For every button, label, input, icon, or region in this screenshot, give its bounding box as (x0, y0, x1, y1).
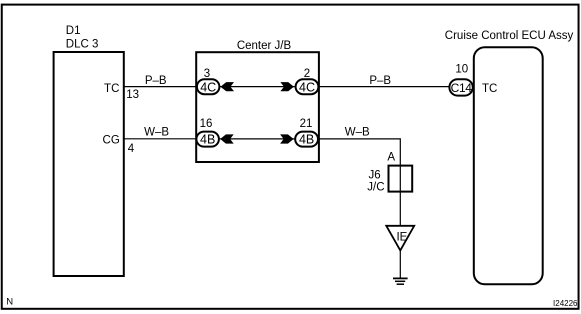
svg-text:13: 13 (126, 89, 139, 101)
junction connector J6 J/C (box) (389, 166, 413, 192)
Center J/B box (196, 52, 319, 162)
wire Center J/B to C14 (P-B) (318, 86, 451, 88)
svg-text:N: N (6, 297, 13, 308)
svg-text:4: 4 (128, 143, 135, 155)
svg-text:Cruise Control ECU Assy: Cruise Control ECU Assy (445, 30, 574, 42)
svg-text:J6: J6 (369, 170, 381, 182)
arrowhead right row 2 (280, 134, 294, 143)
svg-text:10: 10 (455, 63, 468, 75)
terminal 4C left (oval) (197, 79, 220, 94)
svg-text:Center J/B: Center J/B (237, 40, 292, 52)
svg-text:4B: 4B (200, 133, 215, 147)
ground triangle IE (386, 226, 414, 251)
svg-text:DLC 3: DLC 3 (66, 39, 99, 51)
svg-text:4C: 4C (299, 80, 315, 94)
svg-text:D1: D1 (66, 25, 81, 37)
wire Center J/B to junction (W-B) (318, 139, 400, 166)
svg-text:21: 21 (300, 118, 313, 130)
arrowhead left row 1 (221, 82, 235, 91)
svg-text:P–B: P–B (369, 75, 391, 87)
svg-text:I24226: I24226 (553, 299, 578, 308)
Cruise Control ECU Assy (box) (474, 47, 543, 284)
wire triangle to ground (399, 250, 401, 278)
terminal 4B right (oval) (295, 132, 318, 147)
svg-text:J/C: J/C (367, 182, 384, 194)
svg-text:TC: TC (104, 83, 119, 95)
arrowhead right row 1 (280, 82, 294, 91)
svg-text:2: 2 (304, 68, 310, 80)
ground symbol (393, 277, 408, 279)
wire inside Center J/B row 1 (218, 86, 296, 88)
wire CG to Center J/B (W-B) (124, 138, 197, 140)
svg-text:A: A (387, 152, 395, 164)
svg-text:4B: 4B (299, 133, 314, 147)
svg-text:3: 3 (204, 68, 210, 80)
wire TC to Center J/B (P-B) (124, 86, 197, 88)
arrowhead left row 2 (220, 134, 234, 143)
terminal 4B left (oval) (196, 132, 219, 147)
connector D1 DLC 3 (box) (54, 52, 124, 276)
svg-text:P–B: P–B (145, 75, 167, 87)
wire through J6 box (399, 166, 401, 226)
svg-text:TC: TC (482, 83, 497, 95)
svg-text:W–B: W–B (144, 126, 169, 138)
svg-text:16: 16 (200, 118, 213, 130)
svg-text:4C: 4C (200, 80, 216, 94)
svg-text:C14: C14 (451, 81, 473, 95)
wire inside Center J/B row 2 (218, 138, 296, 140)
terminal C14 (oval) (449, 79, 472, 95)
terminal 4C right (oval) (296, 79, 319, 94)
svg-text:IE: IE (396, 232, 407, 244)
svg-text:W–B: W–B (345, 126, 370, 138)
svg-text:CG: CG (103, 135, 120, 147)
